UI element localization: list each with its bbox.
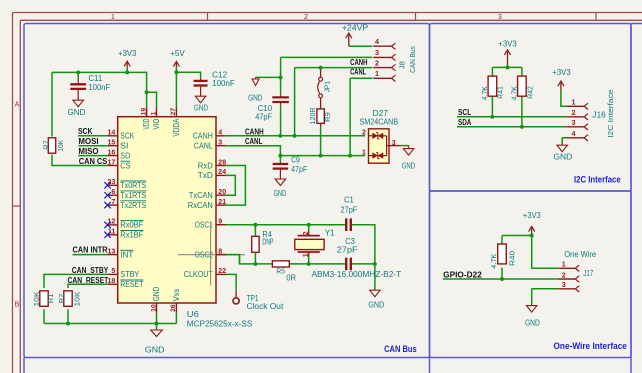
svg-text:RxD: RxD xyxy=(198,161,213,170)
svg-text:SCK: SCK xyxy=(78,127,93,136)
svg-text:C9: C9 xyxy=(291,155,300,164)
svg-text:MCP25625x-x-SS: MCP25625x-x-SS xyxy=(187,320,253,329)
svg-text:GND: GND xyxy=(525,319,540,328)
svg-text:R2: R2 xyxy=(57,294,66,304)
svg-text:+3V3: +3V3 xyxy=(552,68,571,77)
svg-text:+3V3: +3V3 xyxy=(523,211,542,220)
svg-text:26: 26 xyxy=(170,304,177,312)
svg-text:15: 15 xyxy=(108,140,116,147)
svg-text:C1: C1 xyxy=(344,196,354,205)
svg-text:CAN INTR: CAN INTR xyxy=(73,245,108,254)
svg-text:+3V3: +3V3 xyxy=(118,49,137,58)
svg-text:RESET: RESET xyxy=(120,280,143,289)
svg-text:R1: R1 xyxy=(46,294,55,304)
svg-text:GND: GND xyxy=(368,301,384,310)
svg-text:1: 1 xyxy=(150,111,157,115)
svg-text:4: 4 xyxy=(572,129,576,138)
svg-text:3: 3 xyxy=(392,140,396,147)
svg-text:INT: INT xyxy=(120,250,133,259)
svg-text:C11: C11 xyxy=(89,74,103,83)
svg-text:Tx0RTS: Tx0RTS xyxy=(120,181,146,190)
svg-text:GND: GND xyxy=(152,287,161,302)
svg-text:5: 5 xyxy=(111,268,115,275)
svg-text:DNP: DNP xyxy=(262,237,273,246)
svg-text:22: 22 xyxy=(218,268,226,275)
svg-text:One-Wire Interface: One-Wire Interface xyxy=(554,341,627,351)
svg-text:3: 3 xyxy=(572,118,576,127)
svg-text:GND: GND xyxy=(248,93,262,102)
svg-text:CANH: CANH xyxy=(350,58,368,67)
svg-text:Y1: Y1 xyxy=(325,229,335,238)
svg-text:47pF: 47pF xyxy=(255,113,272,122)
svg-text:4.7K: 4.7K xyxy=(509,86,518,100)
svg-text:ABM3-16.000MHZ-B2-T: ABM3-16.000MHZ-B2-T xyxy=(312,270,402,279)
svg-text:3: 3 xyxy=(498,14,502,21)
svg-text:I2C Interface: I2C Interface xyxy=(574,174,621,184)
svg-text:SCK: SCK xyxy=(120,132,135,141)
svg-text:+5V: +5V xyxy=(170,49,185,58)
svg-text:27pF: 27pF xyxy=(337,246,358,255)
svg-text:2: 2 xyxy=(562,270,566,279)
svg-text:SD: SD xyxy=(120,151,130,160)
svg-text:R7: R7 xyxy=(41,140,50,150)
svg-text:GND: GND xyxy=(553,152,572,161)
svg-text:3: 3 xyxy=(562,280,566,289)
svg-text:100nF: 100nF xyxy=(89,83,111,92)
svg-text:R5: R5 xyxy=(276,267,285,276)
svg-text:SI: SI xyxy=(120,142,128,151)
svg-text:3: 3 xyxy=(375,48,379,57)
svg-text:6: 6 xyxy=(111,189,115,196)
svg-text:9: 9 xyxy=(218,219,222,226)
svg-text:4: 4 xyxy=(218,130,222,137)
svg-text:I2C Interface: I2C Interface xyxy=(606,90,615,138)
svg-text:GND: GND xyxy=(68,108,86,117)
svg-text:Rx1BF: Rx1BF xyxy=(120,231,143,240)
svg-text:Clock Out: Clock Out xyxy=(247,302,285,311)
svg-text:TxCAN: TxCAN xyxy=(189,191,213,200)
svg-text:16: 16 xyxy=(108,149,116,156)
svg-text:VDDA: VDDA xyxy=(172,118,181,137)
svg-text:U6: U6 xyxy=(187,310,200,319)
svg-text:CAN Bus: CAN Bus xyxy=(408,46,417,73)
svg-text:Tx2RTS: Tx2RTS xyxy=(120,201,146,210)
svg-text:GND: GND xyxy=(194,104,208,113)
svg-text:120R: 120R xyxy=(308,107,317,125)
svg-text:19: 19 xyxy=(140,108,147,116)
svg-text:2: 2 xyxy=(303,231,310,235)
svg-text:J17: J17 xyxy=(583,269,593,278)
svg-text:24: 24 xyxy=(218,169,226,176)
svg-text:TxD: TxD xyxy=(198,171,213,180)
svg-text:10K: 10K xyxy=(56,140,65,152)
svg-text:SM24CANB: SM24CANB xyxy=(360,117,399,126)
svg-text:1: 1 xyxy=(111,14,115,21)
svg-text:11: 11 xyxy=(108,229,116,236)
svg-text:2: 2 xyxy=(362,130,366,137)
svg-text:28: 28 xyxy=(218,159,226,166)
svg-text:27: 27 xyxy=(170,108,177,116)
svg-text:2: 2 xyxy=(572,108,576,117)
svg-text:CANL: CANL xyxy=(245,137,262,146)
svg-text:1: 1 xyxy=(303,253,310,257)
svg-text:17: 17 xyxy=(108,159,116,166)
svg-text:GPIO-D22: GPIO-D22 xyxy=(443,270,482,279)
svg-text:STBY: STBY xyxy=(120,270,140,279)
svg-text:GND: GND xyxy=(402,161,416,170)
svg-text:VIO: VIO xyxy=(152,119,161,130)
svg-text:+24VP: +24VP xyxy=(342,23,368,32)
svg-text:Vss: Vss xyxy=(172,289,181,302)
svg-text:MOSI: MOSI xyxy=(78,137,98,146)
svg-text:18: 18 xyxy=(108,278,116,285)
svg-text:CANH: CANH xyxy=(245,127,264,136)
svg-text:21: 21 xyxy=(218,199,226,206)
svg-text:JP1: JP1 xyxy=(323,81,332,93)
svg-text:VDD: VDD xyxy=(142,118,151,129)
svg-text:47pF: 47pF xyxy=(291,165,307,174)
svg-text:GND: GND xyxy=(145,346,165,355)
svg-text:1: 1 xyxy=(572,98,576,107)
svg-text:CS: CS xyxy=(120,161,130,170)
svg-text:SCL: SCL xyxy=(458,108,471,117)
svg-text:14: 14 xyxy=(108,130,116,137)
svg-text:13: 13 xyxy=(108,248,116,255)
svg-text:R9: R9 xyxy=(323,112,332,122)
svg-text:B: B xyxy=(15,301,20,308)
svg-text:J8: J8 xyxy=(397,61,406,69)
svg-text:One Wire: One Wire xyxy=(564,250,596,259)
svg-text:Tx1RTS: Tx1RTS xyxy=(120,191,146,200)
svg-text:1: 1 xyxy=(562,260,566,269)
svg-text:RxCAN: RxCAN xyxy=(188,201,213,210)
svg-text:SDA: SDA xyxy=(458,118,471,127)
svg-text:CANL: CANL xyxy=(350,67,366,76)
svg-text:20: 20 xyxy=(218,189,226,196)
svg-text:10: 10 xyxy=(150,304,157,312)
svg-text:0R: 0R xyxy=(286,274,296,283)
svg-text:7: 7 xyxy=(111,199,115,206)
svg-text:100nF: 100nF xyxy=(212,79,235,88)
svg-text:3: 3 xyxy=(218,140,222,147)
svg-text:1: 1 xyxy=(362,149,366,156)
svg-text:R42: R42 xyxy=(525,86,534,99)
svg-text:Rx0BF: Rx0BF xyxy=(120,221,143,230)
svg-text:4: 4 xyxy=(375,37,379,46)
svg-text:27pF: 27pF xyxy=(341,205,358,214)
svg-text:R40: R40 xyxy=(508,251,517,266)
svg-text:J16: J16 xyxy=(592,111,606,120)
svg-text:10K: 10K xyxy=(73,292,82,307)
svg-text:CAN_STBY: CAN_STBY xyxy=(72,266,109,275)
svg-text:10K: 10K xyxy=(32,292,41,307)
svg-text:CANL: CANL xyxy=(194,142,213,151)
svg-text:CAN CS: CAN CS xyxy=(79,157,108,166)
svg-text:4.7K: 4.7K xyxy=(480,86,489,100)
svg-text:R41: R41 xyxy=(495,86,504,99)
svg-text:+3V3: +3V3 xyxy=(498,40,517,49)
svg-text:2: 2 xyxy=(304,14,308,21)
svg-text:CLKOUT: CLKOUT xyxy=(184,270,213,279)
svg-text:4.7K: 4.7K xyxy=(489,254,498,269)
svg-text:1: 1 xyxy=(375,69,379,78)
svg-text:A: A xyxy=(15,101,20,108)
svg-text:CANH: CANH xyxy=(193,132,213,141)
svg-text:MISO: MISO xyxy=(78,147,98,156)
svg-text:CAN Bus: CAN Bus xyxy=(384,344,417,354)
svg-text:GND: GND xyxy=(274,189,287,198)
svg-text:CAN_RESET: CAN_RESET xyxy=(68,276,109,285)
svg-text:2: 2 xyxy=(375,58,379,67)
